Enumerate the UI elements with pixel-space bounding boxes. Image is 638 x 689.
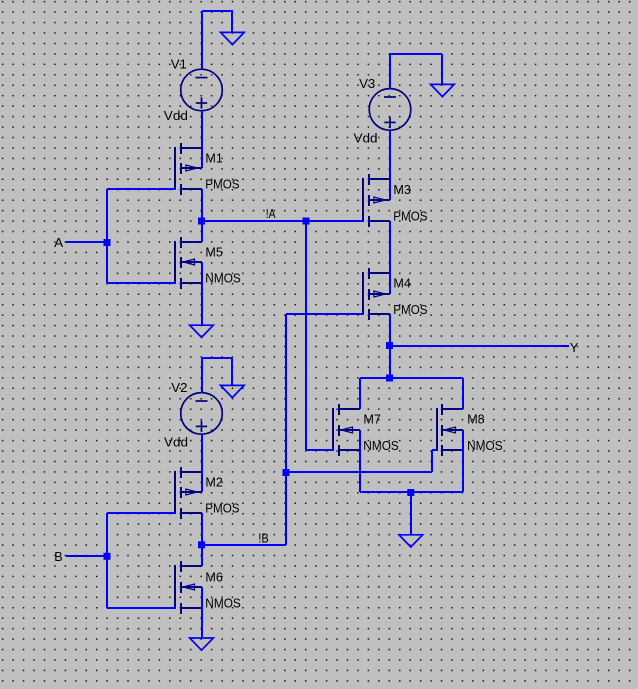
- wire to M7 drain: [359, 378, 361, 409]
- wire node !A horizontal: [202, 220, 363, 222]
- svg-text:M8: M8: [467, 412, 485, 427]
- svg-text:Y: Y: [570, 340, 579, 355]
- wire B vertical: [106, 513, 108, 608]
- wire M1 drain to node !A: [201, 189, 203, 221]
- wire Vdd1 loop top: [202, 10, 232, 12]
- wire M2 drain to M6 drain: [201, 513, 203, 566]
- wire to M8 drain: [462, 378, 464, 409]
- svg-text:PMOS: PMOS: [205, 177, 239, 192]
- svg-text:M1: M1: [205, 151, 223, 166]
- svg-text:PMOS: PMOS: [393, 208, 427, 223]
- svg-text:Vdd: Vdd: [164, 108, 188, 123]
- wire Vdd2 loop right: [231, 358, 233, 385]
- node Y tap junction: [386, 342, 393, 349]
- svg-text:NMOS: NMOS: [363, 438, 399, 453]
- transistor M5 (NMOS): [175, 237, 202, 289]
- wire M3 drain to M4 source: [389, 221, 391, 294]
- wire ground rail: [360, 491, 463, 493]
- wire M8 gate stub: [432, 449, 437, 451]
- ground (under M5): [190, 325, 214, 337]
- wire M4 gate horizontal: [286, 313, 363, 315]
- ground (V1 loop): [221, 32, 245, 44]
- wire node !A branch down: [305, 221, 307, 450]
- svg-text:PMOS: PMOS: [393, 302, 427, 317]
- svg-text:M3: M3: [393, 182, 411, 197]
- transistor M2 (PMOS): [175, 467, 202, 519]
- svg-text:NMOS: NMOS: [205, 596, 241, 611]
- wire node !A to M5 drain: [201, 221, 203, 242]
- svg-text:!B: !B: [258, 531, 269, 546]
- voltage source V3: [369, 89, 411, 131]
- node !A left junction: [198, 218, 205, 225]
- svg-text:M6: M6: [205, 569, 223, 584]
- wire A to M1 gate: [107, 188, 175, 190]
- svg-text:NMOS: NMOS: [205, 271, 241, 286]
- svg-text:M7: M7: [363, 412, 381, 427]
- wire Vdd2 loop left: [201, 358, 203, 393]
- wire node !B vertical: [285, 314, 287, 545]
- node !B branch junction: [283, 469, 290, 476]
- wire A vertical: [106, 189, 108, 283]
- voltage source V1: [181, 69, 223, 111]
- svg-text:M5: M5: [205, 245, 223, 260]
- wire V2 bottom to M2 source: [201, 434, 203, 492]
- wire B input: [66, 555, 107, 557]
- ground (V3 loop): [431, 84, 455, 96]
- ground (under M6): [190, 638, 214, 650]
- wire M7 source down: [359, 430, 361, 492]
- node drain split junction: [386, 375, 393, 382]
- ground (under M7/M8 rail): [399, 535, 423, 547]
- ground (V2 loop): [221, 385, 245, 397]
- wire V1 top to loop: [201, 11, 203, 69]
- wire M4 drain down: [389, 314, 391, 378]
- svg-text:M4: M4: [393, 276, 411, 291]
- wire Vdd2 loop top: [202, 357, 232, 359]
- wire M5 source to ground: [201, 262, 203, 325]
- wire Vdd1 loop right: [231, 10, 233, 32]
- node !A branch junction: [303, 218, 310, 225]
- svg-text:V1: V1: [171, 56, 187, 71]
- wire rail to ground: [410, 492, 412, 535]
- wire B to M6 gate: [107, 607, 175, 609]
- svg-text:M2: M2: [205, 475, 223, 490]
- transistor M7 (NMOS): [333, 404, 360, 456]
- wire output Y: [390, 345, 569, 347]
- node B junction: [104, 553, 111, 560]
- wire Vdd3 loop right: [441, 54, 443, 84]
- transistor M6 (NMOS): [175, 561, 202, 614]
- svg-text:Vdd: Vdd: [164, 435, 188, 450]
- wire drain split left: [360, 377, 390, 379]
- wire V3 bottom to M3 source: [389, 130, 391, 200]
- svg-text:A: A: [54, 235, 63, 250]
- wire node !B to M8 gate branch: [286, 471, 432, 473]
- node !B junction: [198, 541, 205, 548]
- transistor M4 (PMOS): [363, 268, 390, 320]
- svg-text:Vdd: Vdd: [354, 131, 378, 146]
- wire Vdd3 loop left: [389, 54, 391, 89]
- wire Vdd3 loop top: [390, 53, 442, 55]
- node A junction: [104, 239, 111, 246]
- voltage source V2: [181, 393, 223, 435]
- wire A input: [66, 241, 107, 243]
- svg-text:V3: V3: [359, 76, 375, 91]
- svg-text:PMOS: PMOS: [205, 501, 239, 516]
- wire branch to M7 gate: [306, 449, 333, 451]
- wire A to M5 gate: [107, 282, 175, 284]
- wire M6 source to ground: [201, 587, 203, 638]
- svg-text:!A: !A: [266, 206, 276, 221]
- svg-text:B: B: [54, 549, 63, 564]
- wire node !B horizontal: [202, 544, 286, 546]
- transistor M8 (NMOS): [437, 404, 463, 456]
- svg-text:NMOS: NMOS: [467, 438, 503, 453]
- svg-text:V2: V2: [171, 380, 187, 395]
- transistor M3 (PMOS): [363, 174, 390, 227]
- wire B to M2 gate: [107, 512, 175, 514]
- wire M8 source down: [462, 430, 464, 492]
- wire M8 gate riser: [431, 450, 433, 472]
- transistor M1 (PMOS): [175, 143, 202, 195]
- wire V1 bottom to M1 source: [201, 111, 203, 168]
- wire drain split right: [390, 377, 463, 379]
- node ground rail junction: [407, 489, 414, 496]
